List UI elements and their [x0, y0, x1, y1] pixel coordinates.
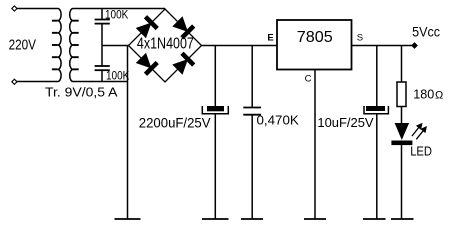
capacitor C1 100K — [95, 20, 110, 24]
LED light arrow 2 — [416, 124, 429, 139]
svg-text:5Vcc: 5Vcc — [412, 25, 440, 40]
ground bar (transformer return) — [115, 218, 141, 220]
capacitor C3 2200uF plus plate — [207, 106, 224, 111]
svg-text:7805: 7805 — [297, 29, 333, 46]
terminal J2 (220V neutral) — [12, 79, 17, 84]
wire C2 to bottom rail — [101, 70, 103, 81]
LED D5 cathode bar — [391, 141, 412, 146]
diode D1 (top-left, anode left vertex) — [135, 15, 158, 38]
transformer T1 primary winding cusps — [52, 21, 58, 70]
wire C3 to ground — [214, 114, 216, 219]
transformer T1 primary winding — [17, 9, 61, 82]
wire 7805 common to ground — [314, 70, 316, 220]
ground bar (U1 common) — [304, 218, 326, 220]
svg-text:E: E — [267, 33, 273, 44]
wire C5 to ground — [376, 114, 378, 219]
svg-text:Tr. 9V/0,5 A: Tr. 9V/0,5 A — [45, 85, 118, 100]
capacitor C4 0,470K — [243, 108, 261, 115]
node 5Vcc terminal — [412, 43, 417, 48]
wire rail to C5 — [376, 46, 378, 107]
capacitor C2 100K — [95, 66, 110, 70]
svg-text:LED: LED — [410, 144, 432, 158]
resistor R1 180 ohm — [397, 82, 406, 107]
transformer T1 secondary winding — [70, 9, 165, 82]
capacitor C5 10uF plus plate — [366, 106, 385, 111]
transformer T1 secondary winding cusps — [73, 21, 79, 70]
wire rail to C3 — [214, 46, 216, 107]
ground bar (C3) — [202, 218, 229, 220]
label 180 ohm — [413, 87, 443, 102]
diode D3 (bottom-left, cathode bottom vertex) — [135, 52, 158, 75]
diode D2 (top-right, cathode right vertex) — [172, 16, 195, 39]
wire rail to C4 — [251, 46, 253, 108]
svg-text:0,470K: 0,470K — [257, 112, 300, 127]
wire R1 to LED — [401, 107, 403, 124]
wire rail to R1 — [401, 46, 403, 83]
svg-text:180: 180 — [413, 87, 434, 102]
wire bridge left vertex down to ground — [127, 46, 129, 220]
capacitor C3 2200uF minus cup — [202, 106, 228, 114]
svg-text:10uF/25V: 10uF/25V — [317, 116, 374, 130]
capacitor C5 10uF minus cup — [364, 106, 388, 114]
svg-text:2200uF/25V: 2200uF/25V — [139, 115, 211, 131]
svg-text:Ω: Ω — [435, 90, 443, 102]
svg-text:100K: 100K — [106, 69, 129, 83]
wire C4 to ground — [251, 115, 253, 219]
terminal J1 (220V live) — [12, 6, 17, 11]
wire bridge right vertex to 7805 input — [202, 45, 278, 47]
wire top rail to C1 — [101, 9, 103, 20]
ground bar (LED) — [391, 218, 414, 220]
wire LED to ground — [401, 145, 403, 219]
bridge rectifier diamond outline — [129, 9, 202, 82]
svg-text:S: S — [357, 33, 363, 44]
ground bar (C4) — [241, 218, 263, 220]
diode D4 (bottom-right, cathode right vertex) — [172, 52, 195, 75]
svg-text:100K: 100K — [105, 7, 128, 21]
LED light arrow 1 — [412, 121, 425, 136]
LED D5 triangle — [395, 123, 410, 140]
wire 7805 output to 5Vcc node — [352, 45, 415, 47]
wire C1 to C2 (midpoint) — [101, 24, 103, 66]
svg-text:220V: 220V — [9, 38, 37, 54]
svg-text:C: C — [305, 74, 312, 85]
regulator U1 7805 body — [277, 20, 352, 70]
wire midpoint to bridge left vertex — [102, 45, 129, 47]
svg-text:4x1N4007: 4x1N4007 — [137, 35, 194, 52]
ground bar (C5) — [363, 218, 386, 220]
